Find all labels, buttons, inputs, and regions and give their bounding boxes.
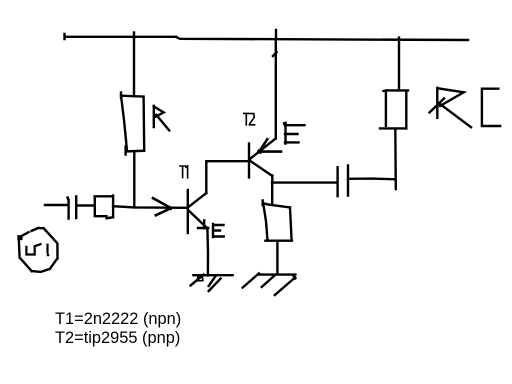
transistor T2 (pnp) bar [248,144,250,178]
source exclamation mark [47,245,49,257]
wire: C2 to R3 bottom [348,177,395,180]
wire: R2 to T1 base through node [113,206,187,208]
wire: T2 collector down to output net [271,176,273,183]
wire: T1 collector up and right to T2 base [206,161,249,193]
wire: load to ground [276,241,278,275]
svg-text:T1=2n2222 (npn): T1=2n2222 (npn) [55,310,181,328]
transistor T1 emitter diagonal [189,211,208,229]
transistor T1 collector diagonal [188,193,206,207]
node: rail junction tick at R branch [133,33,135,39]
label E at T1 emitter [213,224,224,237]
wire: rail down to resistor R [133,37,135,96]
label RC (handwritten) [430,88,501,127]
transistor T2 emitter arrow (points to bar) [259,139,281,152]
wire: output horizontal to C2 [272,181,337,183]
wire: resistor R to input node [133,151,135,207]
svg-text:T2=tip2955 (pnp): T2=tip2955 (pnp) [55,329,180,347]
arrow on base wire [153,198,171,215]
transistor T2 collector diagonal [250,161,272,176]
wire: T2 emitter up to rail (tick above rail) [273,30,277,139]
transistor T1 emitter arrow ticks [198,221,208,229]
wire: C1 to R2 [76,204,94,206]
wire: top rail left segment [65,34,177,39]
wire: rail down to R3 [398,38,400,91]
label E at T2 emitter [284,123,305,144]
capacitor C2 (output coupling) [338,166,348,197]
label T1 [180,166,188,178]
load resistor under T2 (trapezoid) [263,200,292,240]
signal source (scribbled circle) [19,228,58,272]
transistor T1 (npn) bar [187,190,189,233]
source waveform mark [26,244,40,254]
resistor R3 (right, to rail) [380,90,408,128]
resistor R (trapezoid body) [121,93,144,155]
ground (under load) [243,273,296,295]
wire: stub down to load [271,183,273,205]
ground (T1 emitter) [191,275,233,291]
label R (handwritten) [154,106,169,131]
resistor R2 (small box) [95,196,114,219]
label T2 [244,113,255,125]
capacitor C1 (input coupling) [68,197,77,219]
transistor T2 emitter diagonal [250,138,275,158]
wire: R3 down past output node (overshoot) [394,129,397,189]
wire: input lead [45,204,68,206]
wire: top rail right segment [176,37,468,40]
wire: T1 emitter down to ground [206,228,209,275]
